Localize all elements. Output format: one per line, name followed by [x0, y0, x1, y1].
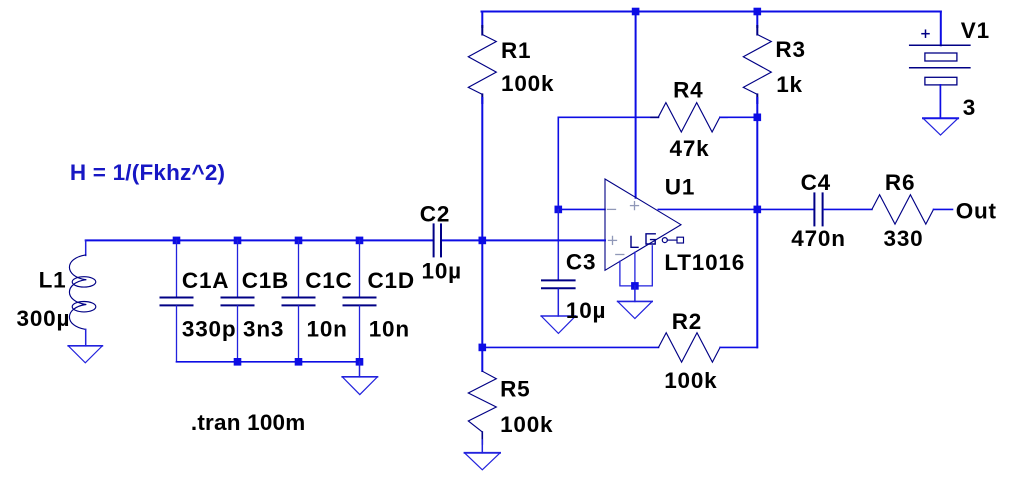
inductor L1 [69, 255, 95, 330]
svg-text:LT1016: LT1016 [664, 250, 745, 275]
node R5 R2 junction [479, 344, 487, 352]
node C1D top [356, 237, 364, 245]
node C1B bottom [234, 358, 242, 366]
wire output row [658, 208, 813, 210]
svg-text:10n: 10n [369, 316, 410, 341]
wire main row left [86, 239, 434, 241]
wire C1D bottom stem [359, 306, 361, 362]
op-amp V+ supply marker [631, 202, 639, 210]
wire V+ column [635, 12, 637, 198]
capacitor C3 [542, 280, 575, 288]
svg-text:.tran 100m: .tran 100m [191, 410, 306, 435]
op-amp U1 triangle [605, 179, 681, 270]
svg-text:100k: 100k [664, 368, 717, 393]
wire C3 drop [557, 209, 559, 279]
svg-text:1k: 1k [776, 72, 803, 97]
svg-text:10µ: 10µ [566, 298, 606, 323]
ground (L1) [68, 346, 102, 363]
svg-text:330p: 330p [182, 316, 236, 341]
wire C1B bottom stem [237, 306, 239, 362]
wire R3 top stub [756, 12, 758, 28]
wire battery top [940, 12, 942, 46]
node C1C top [295, 237, 303, 245]
svg-text:C1A: C1A [182, 268, 229, 293]
wire C3 to ground [557, 289, 559, 316]
wire main row right of C2 [441, 239, 605, 241]
svg-text:470n: 470n [791, 226, 845, 251]
wire op-amp GND pin [634, 252, 636, 286]
node C1B top [234, 237, 242, 245]
wire L1 to ground [85, 329, 87, 345]
svg-text:C1C: C1C [305, 268, 352, 293]
svg-text:H = 1/(Fkhz^2): H = 1/(Fkhz^2) [70, 160, 225, 185]
resistor R6 [872, 195, 934, 224]
svg-text:V1: V1 [961, 18, 990, 43]
wire C4 to R6 [824, 208, 872, 210]
node output junction [754, 206, 762, 214]
svg-text:L1: L1 [39, 268, 67, 293]
op-amp latch L glyph [631, 237, 638, 248]
wire battery to ground [939, 85, 941, 118]
wire R1 bottom to R5 column [481, 98, 483, 371]
capacitor C2 [434, 224, 441, 256]
wire inverting input [558, 208, 605, 210]
wire C1D node to ground [359, 362, 361, 377]
wire R1 top stub [481, 12, 483, 28]
op-amp V- supply marker [616, 254, 624, 256]
resistor R5 [468, 371, 496, 444]
wire R3 bottom to output column [756, 98, 758, 347]
wire op-amp node to ground [634, 286, 636, 302]
op-amp plus input marker [609, 236, 617, 244]
wire C1A bottom stem [176, 306, 178, 362]
wire C1D top stem [359, 240, 361, 297]
node R1 main row junction [479, 237, 487, 245]
node op-amp ground [631, 282, 639, 290]
node top rail / R3 [754, 8, 762, 16]
wire R2 row left [482, 346, 658, 348]
svg-text:R4: R4 [673, 78, 703, 103]
node R3 / R4 junction [754, 114, 762, 122]
capacitor C1B [222, 298, 254, 306]
svg-text:R1: R1 [501, 38, 531, 63]
svg-text:Out: Out [956, 198, 997, 223]
node top rail / V+ [632, 8, 640, 16]
svg-text:R5: R5 [500, 377, 530, 402]
wire R4 right [720, 116, 758, 118]
svg-text:R2: R2 [672, 309, 702, 334]
resistor R3 [743, 26, 771, 103]
svg-text:3n3: 3n3 [243, 316, 284, 341]
svg-text:330: 330 [884, 226, 924, 251]
op-amp latch bubble [662, 238, 667, 243]
wire C1C top stem [298, 240, 300, 297]
svg-text:300µ: 300µ [17, 306, 71, 331]
op-amp latch pin line [668, 239, 678, 241]
svg-text:U1: U1 [665, 175, 695, 200]
wire R4 left + corner [558, 117, 658, 205]
svg-text:R3: R3 [775, 37, 805, 62]
ground (op-amp) [618, 301, 653, 318]
capacitor C1C [283, 298, 315, 306]
wire C1B top stem [237, 240, 239, 297]
wire R5 to ground [481, 440, 483, 453]
svg-text:C4: C4 [801, 170, 831, 195]
node L1 / C1A [173, 237, 181, 245]
svg-text:10n: 10n [307, 316, 348, 341]
svg-text:10µ: 10µ [422, 258, 462, 283]
resistor R2 [659, 333, 721, 362]
op-amp minus input marker [608, 208, 616, 210]
wire R6 to Out [934, 208, 953, 210]
wire L1 stub [85, 240, 87, 255]
ground (C3) [541, 316, 575, 333]
svg-text:C1B: C1B [242, 268, 289, 293]
svg-text:C3: C3 [566, 250, 596, 275]
svg-text:100k: 100k [501, 71, 554, 96]
node inverting input [555, 206, 563, 214]
node C1C bottom [295, 358, 303, 366]
node C1D bottom [356, 358, 364, 366]
resistor R4 [651, 103, 727, 132]
capacitor C1A [161, 298, 193, 306]
op-amp latch pin square [677, 237, 684, 243]
svg-text:3: 3 [963, 95, 976, 120]
capacitor C4 [814, 193, 822, 225]
wire C1 bottom row [177, 361, 360, 363]
wire C1C bottom stem [298, 306, 300, 362]
ground (V1) [923, 118, 958, 135]
svg-text:100k: 100k [500, 412, 553, 437]
capacitor C1D [344, 298, 376, 306]
ground (R5) [465, 453, 501, 470]
svg-text:R6: R6 [885, 170, 915, 195]
wire op-amp V- pin [620, 246, 652, 286]
ground (C1D) [342, 377, 377, 395]
wire C1A top stem [176, 240, 178, 297]
wire top rail [482, 11, 941, 13]
battery V1 [910, 30, 970, 85]
wire R2 row right + corner up [720, 346, 757, 348]
resistor R1 [468, 26, 496, 103]
svg-text:47k: 47k [670, 136, 710, 161]
op-amp latch G glyph [646, 234, 655, 244]
svg-text:C2: C2 [420, 201, 450, 226]
svg-text:C1D: C1D [368, 268, 415, 293]
